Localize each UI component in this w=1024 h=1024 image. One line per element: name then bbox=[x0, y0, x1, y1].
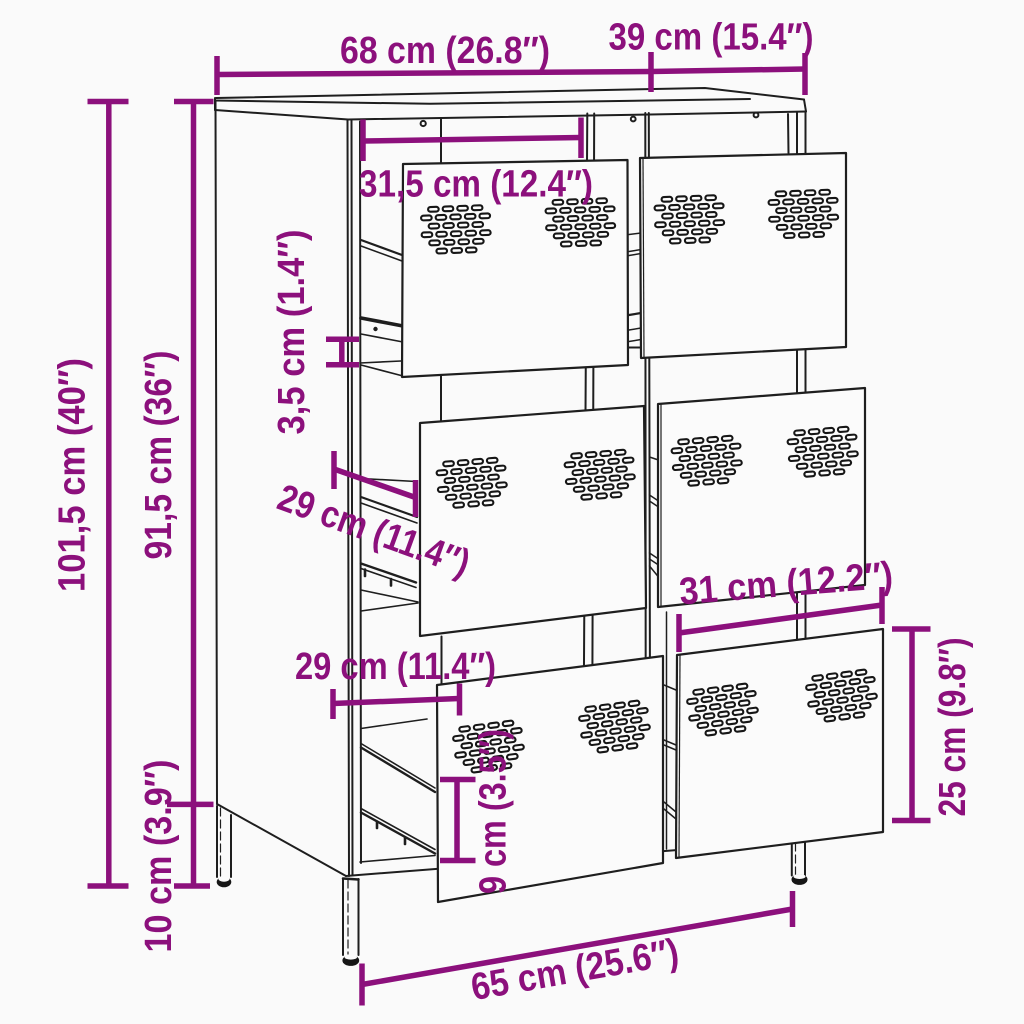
svg-text:10 cm (3.9″): 10 cm (3.9″) bbox=[138, 760, 180, 953]
svg-text:31,5 cm (12.4″): 31,5 cm (12.4″) bbox=[359, 164, 593, 206]
svg-text:25 cm (9.8″): 25 cm (9.8″) bbox=[932, 638, 974, 817]
svg-text:101,5 cm (40″): 101,5 cm (40″) bbox=[52, 358, 94, 592]
svg-text:3,5 cm (1.4″): 3,5 cm (1.4″) bbox=[271, 230, 313, 435]
svg-text:39 cm (15.4″): 39 cm (15.4″) bbox=[609, 17, 814, 59]
svg-text:68 cm (26.8″): 68 cm (26.8″) bbox=[340, 30, 550, 72]
svg-text:91,5 cm (36″): 91,5 cm (36″) bbox=[138, 351, 180, 560]
svg-text:9 cm (3.5″): 9 cm (3.5″) bbox=[473, 729, 515, 894]
svg-text:29 cm (11.4″): 29 cm (11.4″) bbox=[295, 646, 496, 688]
